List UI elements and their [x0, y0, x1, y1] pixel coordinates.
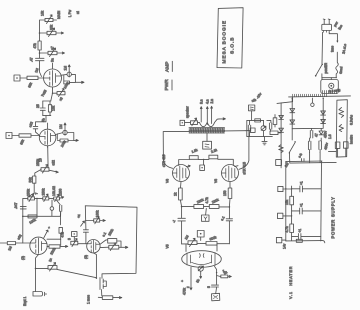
cap on left edge	[83, 230, 88, 244]
middle pot	[43, 197, 49, 200]
svg-text:z: z	[186, 286, 190, 288]
wire to V3 grid	[78, 243, 87, 245]
svg-text:.1: .1	[171, 219, 176, 224]
ground box	[212, 293, 220, 301]
cap on left vertical	[20, 206, 26, 209]
wire	[49, 197, 54, 199]
level pot	[71, 241, 78, 245]
svg-text:4.7k: 4.7k	[205, 197, 209, 204]
drop after mid pot with dot	[51, 200, 53, 207]
primary winding hatch	[323, 91, 337, 94]
left edge of rectangle	[84, 206, 87, 229]
wire into rect left	[329, 151, 337, 153]
treble cap	[57, 200, 62, 211]
diode B2	[279, 128, 284, 132]
svg-text:fuse: fuse	[330, 46, 334, 52]
wire	[180, 200, 181, 207]
svg-text:.47: .47	[30, 57, 34, 62]
wire down-left	[36, 116, 47, 126]
wire to V1b grid	[36, 129, 40, 136]
SEC-I	[247, 92, 293, 168]
SEC-K	[164, 8, 336, 299]
left coupling chain	[181, 207, 183, 218]
svg-text:100k: 100k	[29, 218, 37, 225]
right coupling chain	[228, 207, 230, 218]
arrow out	[119, 246, 128, 248]
svg-text:.047: .047	[14, 202, 18, 209]
plug stubs	[324, 31, 330, 33]
bass pot	[54, 197, 60, 200]
filter cap 3	[319, 141, 322, 153]
svg-text:47k: 47k	[33, 43, 37, 49]
arrow out	[60, 197, 64, 199]
svg-text:powER: powER	[324, 62, 328, 73]
svg-text:1 mes: 1 mes	[87, 295, 91, 304]
svg-text:56k: 56k	[29, 177, 33, 183]
svg-text:1M: 1M	[59, 124, 63, 129]
svg-text:2.2k: 2.2k	[210, 148, 218, 154]
loop wires	[64, 74, 76, 82]
pot stub on left edge	[86, 220, 94, 222]
left cathode resistor	[180, 182, 183, 189]
balance pot circle	[198, 266, 203, 271]
svg-text:220k: 220k	[211, 198, 219, 205]
comp left in rect	[335, 142, 340, 148]
bottom resistor	[270, 131, 278, 135]
svg-text:60k: 60k	[50, 24, 54, 30]
svg-text:(3): (3)	[84, 255, 88, 259]
svg-text:2.n: 2.n	[210, 99, 214, 104]
input jack 2	[6, 133, 12, 139]
svg-text:2A sLo: 2A sLo	[342, 43, 348, 54]
left 220k resistor	[182, 206, 194, 208]
diode D5	[319, 129, 323, 141]
left wire down	[321, 32, 324, 64]
svg-text:+1: +1	[299, 203, 303, 207]
svg-text:+1: +1	[300, 181, 304, 185]
resistor below treble cap	[59, 227, 62, 233]
svg-text:5: 5	[68, 238, 72, 240]
bias feed wire from top	[277, 97, 293, 168]
wire to ground box	[215, 287, 218, 294]
svg-text:V6: V6	[214, 179, 218, 183]
potentiometer send	[47, 31, 56, 34]
bias pot	[263, 120, 265, 125]
capacitor .47	[36, 58, 45, 60]
svg-text:8.n: 8.n	[200, 99, 204, 104]
junction wire above primary	[322, 77, 337, 79]
svg-text:1.5k: 1.5k	[191, 148, 199, 154]
wire and arrow out	[70, 81, 85, 83]
svg-text:MESA BOOGIE: MESA BOOGIE	[222, 20, 228, 64]
primary right feed	[225, 130, 246, 132]
svg-text:5: 5	[207, 286, 211, 288]
ground symbol	[262, 137, 267, 145]
svg-text:-10v: -10v	[256, 92, 263, 100]
zigzag resistor	[279, 145, 284, 153]
left cap	[248, 120, 250, 136]
svg-text:4.7k: 4.7k	[285, 226, 289, 233]
svg-text:PWR: PWR	[164, 79, 170, 91]
bottom pot branch	[100, 246, 109, 248]
heater zigzag 2	[339, 125, 343, 132]
gain pot	[41, 168, 49, 172]
SEC-J	[276, 159, 324, 249]
title box MESA BOOGIE SOB	[217, 8, 243, 68]
wire down to V1a grid	[40, 61, 42, 77]
SEC-H	[289, 98, 354, 163]
right resistor vertical	[273, 118, 277, 125]
screen resistor 2	[209, 155, 218, 159]
resistor 100k	[60, 139, 68, 142]
right coupling cap	[226, 219, 232, 221]
AC plug	[322, 24, 332, 30]
svg-text:250k: 250k	[27, 188, 31, 196]
slope resistor	[33, 176, 36, 183]
junction box right	[250, 128, 255, 132]
phase inverter tube V5	[182, 251, 222, 268]
svg-text:5k: 5k	[195, 278, 200, 283]
PI pot	[188, 241, 197, 245]
wire	[39, 50, 41, 53]
wires of screen row	[179, 159, 234, 165]
filter cap tap2	[292, 208, 321, 214]
tail cap	[212, 285, 219, 287]
small pot on bottom wire	[296, 239, 302, 242]
wire	[20, 77, 27, 79]
svg-text:15: 15	[39, 158, 43, 162]
potentiometer master volume	[45, 18, 53, 21]
bottom resistor 1meg	[102, 296, 113, 300]
center tap drop	[206, 133, 208, 141]
svg-text:sTR 415: sTR 415	[243, 162, 247, 175]
wiper arrow	[49, 170, 58, 173]
filter cap tap3	[292, 234, 321, 240]
triode V1a	[44, 69, 62, 87]
filter cap 2	[308, 138, 311, 153]
svg-text:6.3 wdg: 6.3 wdg	[329, 88, 341, 94]
right rail	[320, 161, 323, 241]
wire top corner to master pot	[40, 20, 46, 33]
parallel RC: top cap branch	[100, 240, 108, 244]
treble pot	[28, 197, 35, 200]
svg-text:600k: 600k	[209, 235, 217, 241]
svg-text:10k: 10k	[41, 10, 45, 16]
svg-text:nt: nt	[76, 11, 80, 14]
svg-text:47: 47	[315, 133, 319, 137]
small box between tubes	[200, 165, 205, 170]
heater winding rectangle	[336, 100, 347, 157]
diode D1	[290, 109, 295, 113]
screen resistor 1	[189, 156, 198, 160]
center junction to small box	[203, 159, 205, 165]
pot circle 1M vol	[67, 72, 71, 76]
wire	[39, 53, 41, 58]
svg-text:i, Pw: i, Pw	[68, 9, 72, 17]
bottom wire of tone stack	[23, 211, 61, 216]
electrolytic cap	[33, 292, 47, 297]
tap 2 ohm	[211, 106, 213, 123]
primary left feed	[163, 132, 189, 169]
long separator wire	[289, 96, 351, 97]
left vertical	[23, 198, 28, 216]
left coupling cap	[178, 218, 186, 221]
svg-text:150: 150	[223, 190, 227, 196]
svg-text:V6: V6	[165, 179, 169, 183]
svg-text:4.n: 4.n	[206, 99, 210, 104]
tap 4 ohm	[206, 107, 208, 125]
PI row wire	[182, 243, 188, 245]
wire below switch	[321, 74, 323, 78]
wire	[28, 183, 34, 197]
resistor 100k	[64, 81, 70, 84]
wires into box	[322, 78, 331, 80]
filter cap tap1	[292, 186, 321, 192]
supply top wire	[286, 160, 322, 163]
wire down-left	[35, 170, 41, 177]
svg-text:a7: a7	[51, 46, 55, 50]
svg-text:100k: 100k	[60, 140, 67, 148]
comp right in rect	[344, 142, 349, 148]
power tube V6	[173, 165, 190, 182]
wire down to V2a grid	[22, 216, 24, 243]
svg-text:15k: 15k	[52, 105, 56, 111]
svg-text:450v: 450v	[324, 130, 328, 138]
svg-text:1M: 1M	[34, 67, 39, 73]
wire to grid	[16, 242, 30, 244]
wire down	[101, 290, 103, 296]
bypass cap	[40, 101, 45, 116]
center tap circle	[311, 98, 313, 103]
svg-text:1M: 1M	[63, 66, 67, 71]
svg-text:Grnd: Grnd	[339, 66, 344, 74]
svg-text:line: line	[337, 24, 343, 31]
svg-text:+: +	[181, 280, 185, 282]
potentiometer return	[48, 51, 57, 54]
big feedback rectangle	[85, 206, 137, 278]
svg-text:7o25: 7o25	[40, 89, 47, 97]
speaker jack	[180, 120, 185, 125]
wire to grid	[31, 135, 40, 137]
svg-text:250k: 250k	[107, 228, 114, 236]
bias resistor	[255, 119, 261, 122]
reverb box	[72, 232, 78, 237]
diode B1	[279, 115, 284, 119]
wire	[185, 122, 191, 124]
wire below pot	[200, 271, 202, 278]
box above row	[197, 231, 204, 238]
triode V3	[87, 240, 100, 253]
left rail	[285, 162, 287, 241]
wire	[60, 233, 62, 239]
cathode pot	[57, 92, 65, 95]
arrow label at left edge	[81, 221, 85, 226]
diode D3	[321, 111, 326, 115]
arrow right	[219, 118, 225, 120]
RC pair top wire	[43, 100, 51, 102]
coupling cap .022	[33, 126, 38, 128]
svg-text:100k: 100k	[96, 210, 100, 218]
cathode resistor 1.5k	[48, 105, 51, 112]
svg-text:1k: 1k	[174, 192, 178, 196]
arrow out	[57, 52, 65, 54]
junction with diagonal wire	[95, 277, 97, 280]
tick marks on top wire	[302, 159, 305, 162]
svg-text:220k: 220k	[196, 198, 204, 205]
junction to pot	[36, 267, 49, 269]
stem	[73, 237, 75, 242]
svg-text:6.3vAc: 6.3vAc	[350, 115, 354, 125]
wire	[12, 135, 19, 137]
wires caps to bottom	[310, 153, 321, 163]
svg-text:x2: x2	[58, 96, 63, 101]
right caps	[267, 120, 272, 131]
standby switch	[289, 142, 295, 152]
wire plate to pot	[61, 73, 67, 76]
svg-text:sTR 415: sTR 415	[162, 154, 166, 167]
bottom wire	[289, 153, 336, 163]
wire down	[51, 93, 53, 101]
right wire with fuse jog	[329, 32, 337, 42]
svg-text:1M: 1M	[7, 245, 13, 251]
dropping resistor rail	[291, 186, 293, 196]
svg-text:10k.02: 10k.02	[52, 186, 56, 196]
output level pot	[191, 121, 198, 125]
cathode wire down	[93, 253, 96, 278]
tap box 2	[278, 186, 283, 191]
cathode wire	[53, 89, 58, 94]
wires arrow out	[57, 139, 78, 141]
wire	[53, 19, 57, 21]
svg-text:o22: o22	[52, 160, 56, 166]
output transformer winding	[189, 128, 225, 133]
svg-text:3a: 3a	[51, 58, 55, 62]
bias top wire	[247, 119, 264, 121]
arrow out	[56, 32, 64, 34]
svg-text:25: 25	[36, 104, 40, 108]
secondary loops	[198, 119, 220, 127]
long diagonal wire to V3 cathode	[57, 269, 96, 277]
dropping resistor 2	[291, 216, 293, 224]
svg-text:2200: 2200	[59, 188, 63, 196]
secondary hatch	[293, 94, 327, 97]
tap 8 ohm	[200, 107, 202, 122]
power tube V7	[222, 165, 239, 182]
svg-text:(2): (2)	[21, 256, 25, 260]
end hook	[322, 241, 325, 243]
cathode wire	[36, 255, 39, 269]
right cathode chain	[215, 266, 217, 284]
resistor on bottom wire	[28, 215, 37, 218]
svg-text:1uf: 1uf	[284, 162, 290, 168]
svg-text:250k: 250k	[42, 188, 46, 196]
filter cap 1	[310, 129, 313, 138]
svg-text:Expt 1: Expt 1	[23, 296, 27, 306]
triode V1b	[39, 129, 56, 146]
wire down	[251, 111, 253, 121]
pot circle	[63, 130, 67, 134]
svg-text:o.1: o.1	[220, 215, 226, 221]
diode D4	[321, 119, 326, 123]
diode D2	[290, 120, 295, 124]
resistor 47k vertical	[38, 41, 41, 50]
wires arrow	[47, 245, 68, 247]
svg-text:1.6: 1.6	[328, 134, 332, 139]
svg-text:V.1 HEATER: V.1 HEATER	[289, 266, 293, 299]
svg-text:1M: 1M	[184, 234, 190, 240]
wire	[39, 33, 41, 41]
svg-text:+: +	[47, 226, 51, 230]
loop top wire	[47, 239, 61, 245]
tail resistor	[217, 276, 221, 277]
svg-text:POWER SUPPLY: POWER SUPPLY	[331, 196, 336, 238]
wire to return pot	[40, 52, 49, 54]
svg-text:3b: 3b	[41, 118, 46, 122]
cathode wire down	[47, 146, 49, 168]
rectifier loop	[292, 98, 323, 129]
input jack 1	[14, 75, 20, 81]
tap box 4	[276, 237, 281, 242]
wire	[35, 197, 43, 199]
svg-text:S.O.B: S.O.B	[230, 37, 236, 54]
left cathode wire with arrow	[190, 267, 192, 290]
pilot lamp	[329, 83, 334, 88]
bottom wire	[286, 240, 322, 242]
wire down to mix	[59, 211, 61, 225]
plate wire diagonal	[44, 230, 48, 238]
wire to send pot	[40, 32, 48, 34]
power switch lever	[315, 64, 322, 76]
tap box 3	[278, 213, 283, 218]
PI resistor	[197, 243, 206, 245]
svg-text:o22: o22	[28, 121, 34, 128]
svg-text:speaker: speaker	[186, 105, 190, 118]
bias bottom wire	[247, 120, 281, 136]
loop wires	[57, 133, 74, 141]
svg-text:68k: 68k	[19, 139, 25, 146]
svg-text:s-b: s-b	[297, 152, 303, 158]
input wire from left edge	[0, 242, 7, 244]
svg-text:AMP: AMP	[164, 62, 170, 72]
resistor 68k	[27, 76, 38, 79]
svg-text:450v: 450v	[324, 142, 329, 150]
svg-text:o22: o22	[16, 234, 22, 241]
cathode pot	[48, 266, 57, 270]
resistor 68k	[19, 134, 31, 137]
fuse wavy right	[336, 52, 338, 77]
resistor 220k	[49, 245, 60, 248]
svg-text:15k: 15k	[285, 199, 289, 205]
SEC-F	[162, 99, 255, 301]
right cathode resistor	[229, 182, 231, 189]
resistor 1M	[7, 242, 15, 245]
svg-text:?: ?	[35, 193, 39, 195]
mid drop wire	[36, 198, 38, 215]
triode V2a	[30, 237, 47, 254]
bottom wire	[43, 115, 51, 117]
svg-text:2x: 2x	[48, 258, 53, 263]
plug prongs	[323, 19, 330, 24]
wire	[228, 199, 231, 207]
center drop to Y box	[205, 208, 208, 215]
NFB box	[249, 105, 255, 111]
svg-text:14v: 14v	[283, 243, 287, 249]
svg-text:+x: +x	[77, 214, 81, 218]
primary box	[321, 80, 339, 94]
wire down	[35, 268, 37, 291]
box below transformer	[203, 141, 212, 149]
svg-text:V5: V5	[166, 244, 170, 248]
